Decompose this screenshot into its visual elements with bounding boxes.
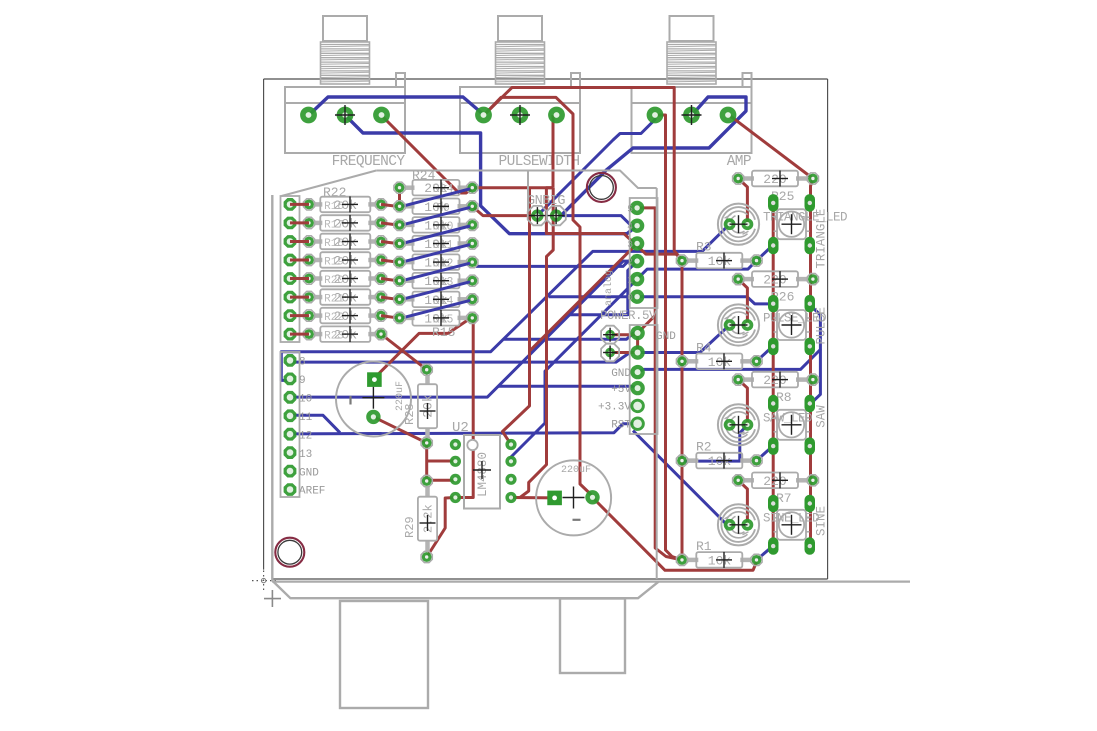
svg-text:POWER.5V: POWER.5V xyxy=(600,309,657,323)
potentiometer PULSEWIDTH xyxy=(460,16,580,153)
pad R3 right xyxy=(751,255,762,266)
pad header1 pin0 xyxy=(284,198,297,211)
wire net to R3 left xyxy=(546,188,683,261)
svg-text:220: 220 xyxy=(763,373,786,388)
wire vertical x529 to U2 xyxy=(503,188,530,445)
header mid outline2 xyxy=(630,325,658,434)
pad header2 9 xyxy=(284,373,297,386)
wire row3 diag xyxy=(757,446,774,461)
wire cap1 plus to R15 right xyxy=(374,316,473,378)
resistor R4 body xyxy=(687,354,752,370)
label R24 xyxy=(412,168,436,183)
pad header2 GND xyxy=(284,465,297,478)
wire pot1.2 to pin4 xyxy=(345,115,637,234)
pad PULSEWIDTH pin2 xyxy=(510,105,530,125)
pad button xyxy=(768,295,779,313)
pad RB2 left xyxy=(394,219,405,230)
pad AMP pin1 xyxy=(647,107,664,124)
value 10k xyxy=(424,236,453,253)
wire B diag xyxy=(402,245,470,263)
label R3 xyxy=(696,240,712,255)
label 12 xyxy=(299,430,312,442)
pad C1 plus xyxy=(367,372,382,387)
value 20k xyxy=(324,252,358,269)
pad C2 minus xyxy=(585,490,599,504)
label FREQUENCY xyxy=(332,154,406,170)
pad U2 pin8 xyxy=(505,439,516,450)
wire button left column vertical xyxy=(772,203,775,546)
wire RST branch to LED4 xyxy=(633,431,730,525)
label PULSE_LED xyxy=(763,312,826,326)
svg-text:TRIANGLE: TRIANGLE xyxy=(815,209,829,269)
resistor R24 column 2 body xyxy=(405,199,468,215)
pad R25 right xyxy=(807,173,818,184)
pad R4 right xyxy=(751,356,762,367)
pad RB6 right xyxy=(467,294,478,305)
op-amp U2 outline xyxy=(452,420,500,509)
value 10k xyxy=(424,273,453,290)
label GND xyxy=(299,467,319,479)
pad LED left xyxy=(724,319,736,331)
svg-text:R20: R20 xyxy=(324,275,344,287)
pad AMP pin2 xyxy=(682,105,702,125)
resistor R24 column 3 body xyxy=(405,217,468,233)
svg-text:10: 10 xyxy=(299,394,312,406)
wire header stub xyxy=(290,314,309,317)
svg-text:R18: R18 xyxy=(324,238,344,250)
wire pot3.2 to GNBIG2 xyxy=(556,97,746,216)
pad R8 right xyxy=(807,374,818,385)
value 20k xyxy=(324,326,358,343)
value 20k xyxy=(324,308,358,325)
pad R4 left xyxy=(676,356,687,367)
wire pin1 to button1 via R3 xyxy=(637,245,773,279)
value 220 R7 xyxy=(763,472,788,489)
resistor R25 body xyxy=(743,171,808,187)
pad R29 top xyxy=(421,475,432,486)
pad button xyxy=(768,194,779,212)
value 20k xyxy=(324,234,358,251)
pad RB3 right xyxy=(467,238,478,249)
pad R25 left xyxy=(733,173,744,184)
pad RB4 right xyxy=(467,257,478,268)
label 5 xyxy=(627,203,633,214)
svg-text:AMP: AMP xyxy=(727,154,751,170)
pad button xyxy=(805,537,816,555)
value 10k R1 xyxy=(708,552,732,569)
pad header1 pin2 xyxy=(284,235,297,248)
pad C2 plus xyxy=(547,491,562,506)
svg-text:10k: 10k xyxy=(708,454,732,469)
wire R26 left to LED2 xyxy=(738,279,747,325)
wire R29 top to U2 pin3 xyxy=(427,479,455,482)
wire power pad2 stub xyxy=(612,351,638,354)
LED PULSE_LED body xyxy=(718,304,759,345)
wire power pad1 stub xyxy=(612,333,638,336)
pad mid 4 xyxy=(630,219,644,233)
value 220 R25 xyxy=(763,171,788,188)
label +5V xyxy=(611,384,631,396)
module silk outline xyxy=(282,171,657,580)
svg-text:R17: R17 xyxy=(324,219,344,231)
pad header2 AREF xyxy=(284,483,297,496)
label 2 xyxy=(627,257,633,268)
label TRIANGLE_LED xyxy=(763,211,847,225)
svg-text:9: 9 xyxy=(299,375,306,387)
button TRIANGLE body xyxy=(774,209,810,239)
pad R1 left xyxy=(676,554,687,565)
wire header stub xyxy=(290,259,309,262)
pad PULSEWIDTH pin3 xyxy=(548,107,565,124)
capacitor C1 body xyxy=(336,362,411,437)
wire pot1.3 to R24 row1 xyxy=(381,115,474,193)
wire B diag xyxy=(402,263,470,281)
pad button xyxy=(768,437,779,455)
pad header2 10 xyxy=(284,391,297,404)
DC power jack outline xyxy=(560,599,625,674)
wire header stub xyxy=(290,333,309,336)
svg-text:SINE: SINE xyxy=(815,506,829,536)
label 10 xyxy=(299,394,312,406)
LED origin cross xyxy=(730,215,748,233)
pad LED left xyxy=(724,519,736,531)
svg-text:R29: R29 xyxy=(403,516,417,538)
wire A to B stub xyxy=(381,316,400,319)
LED TRIANGLE_LED body xyxy=(718,204,759,245)
label +3.3V xyxy=(598,402,631,414)
pad R8 left xyxy=(733,374,744,385)
resistor R22 element 1 body xyxy=(314,197,376,213)
wire header stub xyxy=(290,221,309,224)
label R25 xyxy=(771,189,794,204)
resistor R22 element 2 body xyxy=(314,215,376,231)
resistor R2 body xyxy=(687,453,752,469)
pad header2 12 xyxy=(284,428,297,441)
value 10k xyxy=(424,254,453,271)
label R28 xyxy=(403,403,417,425)
wire pot3.1 down xyxy=(655,115,682,560)
label TRIANGLE vertical xyxy=(815,209,829,269)
pad LED left xyxy=(724,419,736,431)
value 10k xyxy=(424,291,453,308)
pad R2 left xyxy=(676,455,687,466)
pad mid2 GND xyxy=(630,365,644,379)
svg-text:LM4880: LM4880 xyxy=(476,452,490,497)
resistor R8 body xyxy=(743,372,808,388)
pad RA1 right xyxy=(375,217,386,228)
LED origin cross xyxy=(730,316,748,334)
pad button xyxy=(768,537,779,555)
wire pot1.1 to pot2.1 xyxy=(309,97,484,115)
pad button xyxy=(805,495,816,513)
wire pot2.1 to R3 left via top xyxy=(484,88,683,262)
wire 10k left chain xyxy=(681,263,684,560)
svg-text:R1: R1 xyxy=(696,539,712,554)
wire B1 left down xyxy=(398,188,401,205)
wire pot2.1 to cap2 round pad xyxy=(484,97,593,496)
label PULSE vertical xyxy=(815,307,829,345)
pad LED right xyxy=(742,519,754,531)
wire branch to button3 TR xyxy=(810,350,821,405)
label R1 xyxy=(696,539,712,554)
pad AMP pin3 xyxy=(720,107,737,124)
pad RB7 right xyxy=(467,312,478,323)
svg-text:2.2k: 2.2k xyxy=(422,504,436,533)
wire pin0 to button2 TL xyxy=(549,297,774,304)
wire R8 left to LED3 xyxy=(738,380,747,425)
pad R1 right xyxy=(751,554,762,565)
pad button xyxy=(768,237,779,255)
pad LED right xyxy=(742,419,754,431)
svg-text:R16: R16 xyxy=(324,201,344,213)
wire pot2.3 down xyxy=(552,115,555,188)
wire GND to button2 TR xyxy=(638,305,821,372)
pad FREQUENCY pin3 xyxy=(373,107,390,124)
pad RB1 right xyxy=(467,201,478,212)
svg-text:+5V: +5V xyxy=(611,384,631,396)
pad LED left xyxy=(724,218,736,230)
button SINE body xyxy=(774,510,810,540)
wire to 5V pad xyxy=(498,386,638,388)
wire GNBIG2 right xyxy=(556,216,637,226)
pad RA3 left xyxy=(303,254,314,265)
label R7 xyxy=(776,491,792,506)
pad R26 left xyxy=(733,274,744,285)
label R8 xyxy=(776,390,792,405)
value 20k xyxy=(324,289,358,306)
pad button xyxy=(805,395,816,413)
resistor R24 column 4 body xyxy=(405,236,468,252)
resistor R26 body xyxy=(743,271,808,287)
pad U2 pin7 xyxy=(505,456,516,467)
pad R28 top xyxy=(421,364,432,375)
pad RA5 left xyxy=(303,291,314,302)
svg-text:R23: R23 xyxy=(324,331,344,343)
origin cross xyxy=(264,590,281,607)
pad mid 0 xyxy=(630,290,644,304)
wire R7 left to LED4 xyxy=(738,480,747,525)
svg-text:PULSE: PULSE xyxy=(815,307,829,345)
header JP2 outline xyxy=(281,352,300,497)
wire GNBIG pad2 stub xyxy=(553,216,556,219)
value 20k xyxy=(324,215,358,232)
label SAW vertical xyxy=(815,405,829,428)
pad mid2 RST xyxy=(630,417,644,431)
wire pin9 to LED1 xyxy=(281,224,729,380)
resistor R7 body xyxy=(743,473,808,489)
pad U2 pin2 xyxy=(450,456,461,467)
svg-text:R19: R19 xyxy=(324,257,344,269)
label 11 xyxy=(299,412,313,424)
wire B diag xyxy=(402,300,470,318)
wire header stub xyxy=(290,203,309,206)
wire pin2 down left xyxy=(570,261,637,315)
pad RB7 left xyxy=(394,312,405,323)
pad button xyxy=(805,295,816,313)
value 220 R26 xyxy=(763,271,788,288)
pad header1 pin6 xyxy=(284,309,297,322)
wire row4 diag xyxy=(757,546,774,560)
wire R28R29 node to U2 pin1 xyxy=(427,460,456,463)
wire B diag xyxy=(402,189,470,207)
value 20k xyxy=(324,271,358,288)
svg-text:R15: R15 xyxy=(433,313,454,326)
label R26 xyxy=(771,290,794,305)
pad R3 left xyxy=(676,255,687,266)
pad RB5 left xyxy=(394,275,405,286)
pad RA5 right xyxy=(375,291,386,302)
potentiometer FREQUENCY xyxy=(285,16,405,153)
svg-text:5: 5 xyxy=(627,203,633,214)
pad mid 3 xyxy=(630,236,644,250)
resistor R22 element 7 body xyxy=(314,308,376,324)
resistor R22 element 8 body xyxy=(314,326,376,342)
wire mid long to GND pad xyxy=(504,333,638,339)
pad R28 bottom xyxy=(421,437,432,448)
value 10k R3 xyxy=(708,253,732,270)
pad R7 left xyxy=(733,475,744,486)
svg-text:R2: R2 xyxy=(696,440,712,455)
wire pot3.3 to button1 xyxy=(729,115,813,179)
pad mid 5 xyxy=(630,201,644,215)
wire R4 right to button2 xyxy=(757,346,774,361)
pad RB3 left xyxy=(394,238,405,249)
label AREF xyxy=(299,486,325,498)
wire GND pad to LED2 xyxy=(638,325,730,353)
wire R24 row1 to pot2.3 horizontal xyxy=(474,186,553,189)
label R2 xyxy=(696,440,712,455)
svg-text:R22: R22 xyxy=(324,312,344,324)
pad RA7 left xyxy=(303,329,314,340)
LED SAW_LED body xyxy=(718,404,759,445)
pad mid2 +3.3V xyxy=(630,399,644,413)
pad C1 minus xyxy=(366,410,380,424)
pad mid2 x xyxy=(630,326,644,340)
pad RA2 right xyxy=(375,236,386,247)
wire A to B stub xyxy=(381,242,400,244)
wire pin8 to GND pad xyxy=(290,353,638,363)
resistor R22 element 5 body xyxy=(314,271,376,287)
wire diag to GNBIG1 xyxy=(537,115,655,216)
pad header1 pin3 xyxy=(284,254,297,267)
pad header1 pin5 xyxy=(284,291,297,304)
pad button xyxy=(805,194,816,212)
pad U2 pin6 xyxy=(505,474,516,485)
pad RA7 right xyxy=(375,329,386,340)
svg-text:R4: R4 xyxy=(696,340,712,355)
mounting hole xyxy=(275,538,304,567)
pad R26 right xyxy=(807,274,818,285)
wire pin5 to R1 left xyxy=(637,208,682,560)
label AMP xyxy=(727,154,751,170)
label RST xyxy=(611,420,631,432)
value 2.2k R29 xyxy=(420,504,436,533)
wire A to B stub xyxy=(381,260,400,262)
pad RB6 left xyxy=(394,294,405,305)
pad GNBIG pin1 xyxy=(528,206,547,225)
pad RB0 right xyxy=(467,182,478,193)
USB connector outline xyxy=(340,601,428,708)
value 10k xyxy=(424,310,453,327)
pad RA0 right xyxy=(375,199,386,210)
svg-text:1: 1 xyxy=(627,275,633,286)
pad button xyxy=(805,437,816,455)
LED SINE_LED body xyxy=(718,504,759,545)
pad RB0 left xyxy=(394,182,405,193)
pad R7 right xyxy=(807,475,818,486)
wire L2 to pin2 xyxy=(476,261,637,266)
label 4 xyxy=(627,221,633,232)
resistor R24 column 5 body xyxy=(405,254,468,270)
wire power pads join xyxy=(636,335,639,353)
resistor R1 body xyxy=(687,552,752,568)
value 220 R8 xyxy=(763,372,788,389)
button SAW body xyxy=(774,410,810,440)
pad R29 bottom xyxy=(421,551,432,562)
pad GNBIG pin2 xyxy=(546,206,565,225)
header JP1 outline xyxy=(281,196,300,342)
svg-text:220uF: 220uF xyxy=(561,465,591,476)
svg-text:SAW: SAW xyxy=(815,405,829,428)
pad U2 pin1 xyxy=(450,439,461,450)
label POWER.5V xyxy=(600,309,657,323)
wire header stub xyxy=(290,296,309,299)
resistor R3 body xyxy=(687,253,752,269)
pad header2 11 xyxy=(284,409,297,422)
svg-text:RST: RST xyxy=(611,420,631,432)
svg-text:12: 12 xyxy=(299,430,312,442)
value 10k xyxy=(424,198,450,215)
svg-text:0: 0 xyxy=(627,292,633,303)
wire A8 right to R28 top xyxy=(381,334,427,370)
wire B diag xyxy=(402,282,470,300)
svg-text:analog: analog xyxy=(603,270,615,306)
label 9 xyxy=(299,375,306,387)
svg-text:R21: R21 xyxy=(324,294,344,306)
pad button xyxy=(805,338,816,356)
pad header2 8 xyxy=(284,354,297,367)
pad power1 xyxy=(601,326,619,344)
pad RA6 left xyxy=(303,310,314,321)
svg-text:+3.3V: +3.3V xyxy=(598,402,631,414)
pad header1 pin1 xyxy=(284,217,297,230)
arduino outline below shield xyxy=(272,195,910,598)
mounting hole xyxy=(587,173,616,202)
capacitor C2 body xyxy=(536,460,611,535)
label SINE vertical xyxy=(815,506,829,536)
pad LED right xyxy=(742,319,754,331)
pad RA1 left xyxy=(303,217,314,228)
button PULSE body xyxy=(774,310,810,340)
wire R15 right down to U2 pin4 xyxy=(455,316,473,497)
label R4 xyxy=(696,340,712,355)
svg-text:2: 2 xyxy=(627,257,633,268)
pad FREQUENCY pin2 xyxy=(335,105,355,125)
wire GNBIG pad1 stub xyxy=(472,206,537,215)
svg-text:R15: R15 xyxy=(432,325,455,340)
label 13 xyxy=(299,449,312,461)
label R29 xyxy=(403,516,417,538)
resistor R24 column 7 body xyxy=(405,292,468,308)
pad U2 pin5 xyxy=(505,492,516,503)
wire pin3 diag to x529 xyxy=(530,244,638,352)
wire A to B stub xyxy=(381,204,400,206)
value 10k R2 xyxy=(708,453,732,470)
wire header stub xyxy=(290,240,309,243)
svg-text:8: 8 xyxy=(299,357,306,369)
pad RB5 right xyxy=(467,275,478,286)
pad PULSEWIDTH pin1 xyxy=(475,107,492,124)
